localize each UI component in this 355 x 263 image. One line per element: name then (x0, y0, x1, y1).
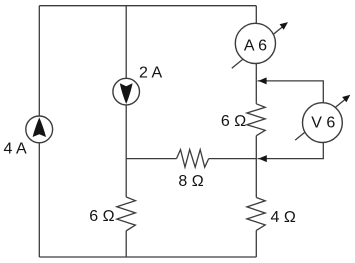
svg-text:8 Ω: 8 Ω (178, 173, 203, 190)
current source 4A circle (26, 116, 53, 143)
wire middle lower (125, 231, 127, 257)
resistor R 6ohm right zigzag (247, 104, 265, 136)
ammeter arrow shaft (232, 26, 284, 68)
wire bottom (39, 256, 256, 258)
wire 8ohm branch right (209, 158, 257, 160)
voltmeter V6 circle (303, 103, 343, 143)
wire left (38, 6, 40, 257)
wire voltmeter bottom branch (258, 123, 324, 159)
junction arrowhead upper (voltmeter probe) (258, 77, 266, 84)
current source 4A up arrow (33, 117, 46, 137)
resistor R 6ohm middle zigzag (117, 197, 136, 231)
wire middle vertical (125, 6, 127, 197)
ammeter arrowhead (280, 22, 288, 30)
svg-text:4 A: 4 A (4, 141, 27, 158)
wire top (39, 5, 256, 7)
svg-text:6 Ω: 6 Ω (221, 113, 246, 130)
svg-text:4 Ω: 4 Ω (271, 209, 296, 226)
wire 8ohm branch left (126, 158, 176, 160)
voltmeter arrowhead (342, 95, 350, 103)
svg-text:6 Ω: 6 Ω (89, 208, 114, 225)
wire right middle (255, 136, 257, 198)
resistor R 4ohm zigzag (247, 198, 265, 231)
current source 2A circle (113, 78, 140, 105)
resistor R 8ohm zigzag (177, 150, 209, 168)
svg-text:A 6: A 6 (244, 37, 267, 54)
svg-text:V 6: V 6 (311, 115, 335, 132)
svg-text:2 A: 2 A (139, 64, 162, 81)
voltmeter arrow shaft (295, 99, 346, 140)
wire right lower (255, 230, 257, 257)
wire right upper (255, 6, 257, 104)
wire voltmeter top branch (258, 81, 324, 123)
ammeter A6 circle (235, 23, 275, 63)
current source 2A down arrow (120, 83, 133, 104)
junction arrowhead lower (voltmeter probe) (259, 155, 267, 162)
